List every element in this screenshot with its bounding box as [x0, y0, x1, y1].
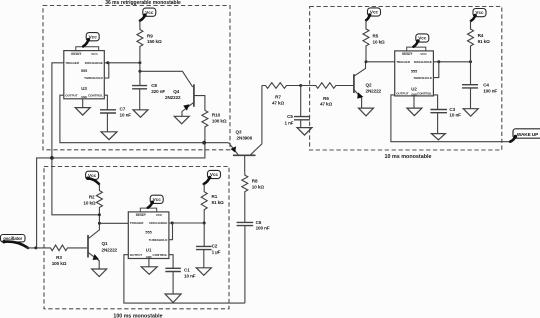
Vcc bubble R9	[143, 8, 156, 16]
wire U2 output to WAKE UP	[391, 95, 510, 142]
wire oscillator to R3	[26, 247, 50, 249]
svg-text:WAKE UP: WAKE UP	[517, 132, 539, 138]
wire C5 to ground	[300, 120, 302, 128]
svg-text:C8: C8	[151, 83, 157, 88]
IC U3 555 timer	[64, 51, 105, 99]
wire U1 output rail to C6	[124, 255, 245, 303]
svg-text:555: 555	[145, 230, 151, 234]
node dot oscillator riser	[34, 246, 37, 249]
resistor R8	[242, 172, 248, 222]
svg-text:TRIGGER: TRIGGER	[130, 221, 145, 225]
svg-text:555: 555	[411, 69, 417, 73]
Vcc bubble U2	[416, 34, 429, 42]
svg-text:DISCHARGE: DISCHARGE	[85, 61, 103, 65]
svg-text:R5: R5	[373, 34, 379, 39]
node dot R5 bottom	[365, 60, 368, 63]
svg-text:91 kΩ: 91 kΩ	[212, 200, 225, 205]
capacitor C5	[300, 86, 302, 117]
svg-text:Vcc: Vcc	[89, 34, 98, 39]
oscillator bubble	[1, 235, 26, 242]
svg-text:100 kΩ: 100 kΩ	[52, 261, 67, 266]
svg-text:R6: R6	[323, 96, 329, 101]
wire U1 discharge to R1/C2 node	[169, 222, 204, 224]
wire Q4 base to R10	[194, 96, 205, 111]
capacitor C6	[237, 222, 254, 225]
resistor R9	[137, 21, 143, 62]
wire C7 to ground	[106, 113, 108, 132]
svg-text:THRESHOLD: THRESHOLD	[84, 76, 104, 80]
transistor Q4 2N2222	[193, 84, 195, 107]
svg-text:Vcc: Vcc	[418, 36, 427, 41]
ground C1	[165, 294, 181, 303]
capacitor C7	[100, 110, 116, 113]
svg-text:C5: C5	[287, 114, 293, 119]
wire U2 control to C3	[433, 95, 437, 110]
wire C6 down to output rail	[244, 226, 246, 304]
wire U2 gnd	[413, 96, 415, 108]
resistor R7	[262, 83, 301, 89]
node dot R1/C2	[203, 222, 206, 225]
svg-text:2N2222: 2N2222	[165, 95, 181, 100]
node dot R2 left rail	[98, 213, 101, 216]
svg-text:THRESHOLD: THRESHOLD	[413, 76, 433, 80]
svg-text:10 ms monostable: 10 ms monostable	[384, 154, 431, 160]
capacitor C2	[203, 223, 205, 246]
svg-text:47 kΩ: 47 kΩ	[320, 102, 333, 107]
svg-text:VCC: VCC	[156, 213, 163, 217]
ground C5	[297, 128, 312, 136]
svg-text:OUTPUT: OUTPUT	[396, 92, 409, 96]
resistor R3	[50, 245, 68, 251]
svg-text:R7: R7	[275, 95, 281, 100]
svg-text:OUTPUT: OUTPUT	[65, 94, 78, 98]
wire C4 to ground	[470, 88, 472, 109]
svg-text:GND: GND	[146, 255, 152, 259]
IC U2 555 timer	[395, 51, 434, 96]
svg-text:10 kΩ: 10 kΩ	[252, 184, 265, 189]
resistor R2	[96, 184, 102, 223]
wire U3 control to C7	[104, 95, 107, 110]
svg-text:VCC: VCC	[420, 52, 427, 56]
node dot U2 discharge	[437, 60, 440, 63]
svg-text:OUTPUT: OUTPUT	[130, 253, 143, 257]
svg-text:C4: C4	[483, 83, 489, 88]
oscillator lead	[4, 242, 28, 248]
svg-text:CONTROL: CONTROL	[88, 94, 103, 98]
svg-text:TRIGGER: TRIGGER	[65, 61, 80, 65]
resistor R4	[468, 21, 474, 62]
Vcc bubble R4	[473, 9, 486, 17]
svg-text:100 ms monostable: 100 ms monostable	[113, 314, 162, 318]
node dot R9 bottom	[138, 61, 141, 64]
svg-text:100 nF: 100 nF	[256, 226, 270, 231]
svg-text:C7: C7	[120, 107, 126, 112]
ground C2	[196, 268, 211, 276]
resistor R6	[301, 83, 336, 89]
svg-text:U2: U2	[411, 86, 417, 91]
svg-text:Vcc: Vcc	[210, 172, 219, 177]
svg-text:1 µF: 1 µF	[212, 250, 221, 255]
svg-text:R8: R8	[252, 179, 258, 184]
svg-text:R4: R4	[478, 33, 484, 38]
wire C2 to ground	[203, 250, 205, 268]
wire threshold loop U2	[433, 62, 438, 78]
Vcc bubble R2	[86, 171, 99, 179]
svg-text:DISCHARGE: DISCHARGE	[414, 60, 432, 64]
wire U1 gnd	[148, 259, 150, 267]
resistor R10	[202, 110, 208, 142]
svg-text:DISCHARGE: DISCHARGE	[149, 221, 167, 225]
svg-text:R1: R1	[212, 194, 218, 199]
dashed box: 100 ms monostable	[44, 167, 229, 309]
node dot discharge	[106, 61, 109, 64]
svg-text:150 kΩ: 150 kΩ	[147, 39, 162, 44]
ground Q4 emitter	[174, 116, 189, 124]
Vcc bubble U1	[150, 195, 163, 203]
svg-text:RESET: RESET	[71, 52, 81, 56]
wire C1 to ground	[172, 272, 174, 295]
node dot R10 bottom rail	[202, 141, 206, 145]
wire C8 to ground	[139, 89, 141, 110]
wire U1 control to C1	[169, 255, 173, 269]
dashed box: 10 ms monostable	[310, 7, 502, 151]
svg-text:Q2: Q2	[366, 82, 372, 87]
svg-text:C1: C1	[184, 268, 190, 273]
wire U3 discharge to R9 node	[104, 62, 140, 64]
wire R3 to Q1 base	[68, 247, 87, 249]
wire riser rail junction	[37, 143, 205, 248]
svg-text:R3: R3	[56, 255, 62, 260]
svg-text:10 nF: 10 nF	[120, 112, 132, 117]
svg-text:U1: U1	[146, 247, 152, 252]
svg-text:555: 555	[81, 69, 87, 73]
wire trigger node to U1	[99, 222, 128, 224]
wire threshold loop U1	[169, 223, 173, 240]
svg-text:R9: R9	[147, 33, 153, 38]
Vcc bubble R1	[208, 170, 221, 178]
Vcc bubble R5	[368, 8, 381, 16]
svg-text:Q3: Q3	[236, 130, 242, 135]
node dot U1 discharge	[171, 222, 174, 225]
wire threshold loop U3	[104, 63, 109, 78]
svg-text:RESET: RESET	[136, 213, 146, 217]
svg-text:100 kΩ: 100 kΩ	[212, 118, 227, 123]
wire U3 output rail to Q3 emitter	[60, 95, 229, 143]
svg-text:GND: GND	[81, 95, 87, 99]
svg-text:1 nF: 1 nF	[284, 120, 293, 125]
svg-text:Vcc: Vcc	[145, 10, 154, 15]
IC U1 555 timer	[128, 212, 169, 259]
Vcc bubble U3	[86, 33, 99, 41]
svg-text:2N3906: 2N3906	[237, 136, 253, 141]
wire U2 discharge to R4 node	[433, 61, 470, 63]
transistor Q1 2N2222	[87, 235, 89, 258]
svg-text:10 kΩ: 10 kΩ	[373, 39, 386, 44]
node dot Q1 collector / U1 trigger	[98, 222, 101, 225]
svg-text:Q4: Q4	[173, 89, 179, 94]
wire R9 node down to C8 node	[139, 63, 141, 86]
svg-text:2N2222: 2N2222	[102, 247, 118, 252]
svg-text:10 nF: 10 nF	[184, 273, 196, 278]
capacitor C1	[165, 268, 181, 271]
ground C7	[101, 132, 117, 140]
svg-text:47 kΩ: 47 kΩ	[272, 100, 285, 105]
capacitor C3	[430, 110, 447, 113]
svg-text:THRESHOLD: THRESHOLD	[149, 238, 169, 242]
transistor Q3 2N3906	[233, 154, 256, 156]
svg-text:RESET: RESET	[402, 52, 412, 56]
svg-text:CONTROL: CONTROL	[417, 92, 432, 96]
capacitor C4	[470, 62, 472, 85]
svg-text:C6: C6	[256, 220, 262, 225]
resistor R1	[201, 184, 207, 223]
svg-text:Vcc: Vcc	[153, 197, 162, 202]
svg-text:C3: C3	[449, 107, 455, 112]
wire C8 node to Q4 collector	[140, 71, 193, 87]
svg-text:VCC: VCC	[91, 52, 98, 56]
svg-text:2N2222: 2N2222	[366, 89, 382, 94]
svg-text:Q1: Q1	[102, 241, 108, 246]
node dot R7-R6-C5	[299, 84, 302, 87]
svg-text:Vcc: Vcc	[370, 10, 379, 15]
wire C3 to ground	[437, 113, 439, 134]
svg-text:100 nF: 100 nF	[483, 88, 497, 93]
svg-text:36 ms retriggerable monostable: 36 ms retriggerable monostable	[105, 0, 181, 6]
wire U3 trigger down-left rail	[52, 63, 100, 215]
capacitor C8	[132, 86, 147, 89]
resistor R5	[363, 20, 369, 62]
ground U1	[141, 267, 157, 275]
node dot C8 top	[138, 70, 141, 73]
svg-text:TRIGGER: TRIGGER	[396, 60, 411, 64]
dashed box: 36 ms retriggerable monostable	[43, 6, 230, 150]
ground Q2 emitter	[359, 108, 374, 116]
svg-text:CONTROL: CONTROL	[153, 253, 168, 257]
ground C4	[463, 109, 478, 117]
wire R5 node to U2 trigger	[366, 61, 395, 63]
wire U3 gnd	[82, 99, 84, 108]
svg-text:220 nF: 220 nF	[151, 89, 165, 94]
svg-text:C2: C2	[212, 244, 218, 249]
ground U3	[75, 108, 90, 116]
transistor Q2 2N2222	[353, 74, 355, 93]
WAKE UP bubble	[513, 129, 540, 138]
node dot R4 bottom	[469, 60, 472, 63]
svg-text:U3: U3	[81, 86, 87, 91]
svg-text:10 nF: 10 nF	[449, 113, 461, 118]
ground U2	[407, 108, 422, 116]
node dot trigger rail crossing	[50, 156, 54, 160]
ground C3	[431, 134, 445, 140]
ground Q1 emitter	[92, 269, 107, 277]
svg-text:R2: R2	[89, 194, 95, 199]
ground C8	[133, 110, 148, 118]
svg-text:91 kΩ: 91 kΩ	[478, 39, 491, 44]
svg-text:R10: R10	[212, 113, 221, 118]
svg-text:Vcc: Vcc	[475, 10, 484, 15]
svg-text:10 kΩ: 10 kΩ	[83, 200, 96, 205]
